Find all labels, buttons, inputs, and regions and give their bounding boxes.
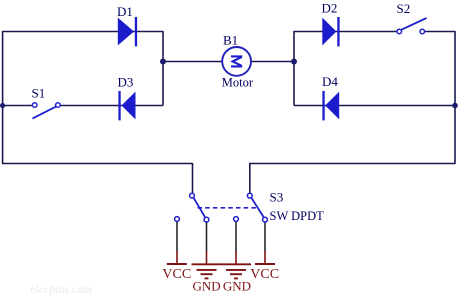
junction dot motor right node — [291, 59, 297, 65]
svg-text:D1: D1 — [117, 4, 133, 19]
junction dot bottom-right node — [452, 103, 458, 109]
diode D2 — [322, 17, 339, 46]
power VCC 2 — [255, 251, 275, 264]
wire top-left horizontal — [2, 31, 163, 33]
wire top-right horizontal (to S2) — [294, 31, 397, 33]
switch S3 pole1 blade — [194, 198, 206, 218]
junction dot left rail / S1 node — [0, 103, 5, 108]
svg-text:D2: D2 — [322, 1, 338, 16]
switch S3 throw1 terminal — [175, 217, 180, 222]
wire bottom rail left — [2, 163, 193, 165]
wire left vertical — [2, 31, 4, 164]
wire lower-left horizontal (left of S1) — [2, 105, 34, 107]
svg-text:S2: S2 — [397, 1, 411, 16]
wire lower-left horizontal (S1 to D3 to inner vertical) — [60, 105, 163, 107]
svg-text:D3: D3 — [118, 75, 134, 90]
switch S2 — [397, 18, 427, 34]
switch S3 pole2 blade — [251, 198, 263, 218]
svg-text:GND: GND — [193, 279, 221, 294]
wire bottom rail right — [250, 163, 456, 165]
switch S3 pole2 common — [247, 193, 252, 198]
wire inner-left vertical — [162, 31, 164, 106]
wire throw2 stem — [206, 222, 208, 252]
svg-text:SW DPDT: SW DPDT — [270, 209, 325, 223]
wire right vertical — [454, 31, 456, 164]
wire throw3 stem — [235, 222, 237, 252]
wire bottom-right horizontal of bridge — [294, 105, 455, 107]
switch S3 link dashed — [198, 207, 257, 209]
svg-text:S1: S1 — [32, 86, 46, 101]
svg-text:B1: B1 — [223, 33, 238, 48]
wire S3 pole2 drop — [249, 163, 251, 193]
ground GND 1 — [192, 251, 222, 278]
svg-text:GND: GND — [223, 279, 251, 294]
switch S3 throw3 terminal — [234, 217, 239, 222]
svg-text:elecfans com: elecfans com — [30, 282, 93, 296]
power VCC 1 — [167, 251, 187, 264]
ground GND 2 — [221, 251, 251, 278]
diode D4 — [322, 91, 339, 120]
svg-text:S3: S3 — [270, 190, 284, 205]
wire motor left lead — [163, 61, 223, 63]
switch S3 throw2 terminal — [204, 217, 209, 222]
switch S3 pole1 common — [190, 193, 195, 198]
wire top-right horizontal (S2 to corner) — [425, 31, 456, 33]
wire S3 pole1 drop — [192, 163, 194, 193]
switch S3 throw4 terminal — [263, 217, 268, 222]
wire throw1 stem — [176, 222, 178, 252]
wire motor right lead — [251, 61, 294, 63]
svg-text:D4: D4 — [322, 74, 338, 89]
switch S1 — [32, 103, 60, 119]
svg-text:VCC: VCC — [250, 267, 279, 282]
svg-text:Motor: Motor — [222, 76, 254, 90]
wire inner-right vertical — [293, 31, 295, 106]
motor B1 — [222, 47, 251, 76]
wire throw4 stem — [264, 222, 266, 252]
diode D1 — [118, 17, 137, 46]
diode D3 — [118, 91, 135, 120]
junction dot motor left node — [160, 59, 166, 65]
svg-text:VCC: VCC — [162, 267, 191, 282]
